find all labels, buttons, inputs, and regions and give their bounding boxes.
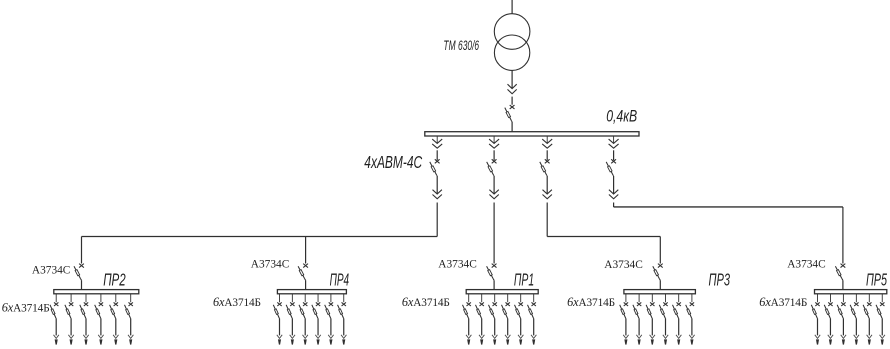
svg-text:6хА3714Б: 6хА3714Б — [2, 300, 50, 314]
svg-text:ПР1: ПР1 — [514, 270, 534, 290]
svg-text:0,4кВ: 0,4кВ — [606, 107, 637, 125]
svg-text:6хА3714Б: 6хА3714Б — [402, 295, 450, 309]
svg-text:ПР2: ПР2 — [103, 270, 126, 290]
svg-text:6хА3714Б: 6хА3714Б — [567, 295, 615, 309]
svg-text:А3734С: А3734С — [787, 259, 826, 271]
svg-text:ПР4: ПР4 — [330, 270, 350, 290]
svg-text:6хА3714Б: 6хА3714Б — [213, 295, 261, 309]
svg-text:А3734С: А3734С — [251, 258, 290, 270]
svg-text:6хА3714Б: 6хА3714Б — [759, 295, 807, 309]
svg-text:ТМ 630/6: ТМ 630/6 — [443, 37, 479, 53]
svg-text:4хАВМ-4С: 4хАВМ-4С — [364, 152, 422, 172]
svg-text:А3734С: А3734С — [32, 265, 71, 277]
svg-text:ПР5: ПР5 — [866, 270, 887, 290]
svg-text:А3734С: А3734С — [438, 259, 477, 271]
svg-text:А3734С: А3734С — [604, 259, 643, 271]
svg-text:ПР3: ПР3 — [709, 270, 731, 290]
